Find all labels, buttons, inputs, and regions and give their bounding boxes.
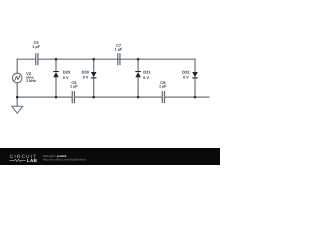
svg-text:D31: D31: [143, 70, 151, 75]
wire bottom rail segment 1: [17, 96, 71, 98]
wire D31 branch vertical: [137, 59, 139, 97]
diode D31 (pointing up): [135, 71, 141, 77]
svg-text:0 V: 0 V: [183, 76, 189, 80]
node top-D29: [55, 58, 58, 61]
svg-text:D29: D29: [63, 70, 71, 75]
diode D30 (pointing down): [91, 72, 97, 78]
diode D32 (pointing down): [192, 72, 198, 78]
capacitor C7 plates: [118, 53, 120, 65]
wire D29 branch vertical: [55, 59, 57, 97]
diode D29 (pointing up): [53, 71, 59, 77]
wire left vertical top (V2 to top rail): [16, 59, 18, 73]
svg-text:1 µF: 1 µF: [115, 48, 123, 52]
svg-text:LAB: LAB: [27, 158, 38, 163]
node top-D30: [92, 58, 95, 61]
node bottom-D30: [92, 96, 95, 99]
svg-text:0 V: 0 V: [143, 76, 149, 80]
wire D32 branch vertical (right edge): [194, 59, 196, 97]
capacitor C6 plates: [72, 91, 74, 103]
junction node dots: [16, 58, 196, 98]
svg-text:1 µF: 1 µF: [70, 85, 78, 89]
wire top rail middle-right segment: [39, 58, 195, 60]
voltage source V2 circle: [12, 73, 22, 83]
wire bottom rail segment 2: [75, 96, 162, 98]
wire top rail left segment: [17, 58, 35, 60]
capacitor C5 plates: [36, 53, 38, 65]
wire left vertical bottom (V2 to bottom rail): [16, 83, 18, 97]
capacitor C8 plates: [162, 91, 164, 103]
svg-text:D32: D32: [182, 70, 190, 75]
svg-text:1 µF: 1 µF: [159, 85, 167, 89]
node top-D31: [137, 58, 140, 61]
ground stub wire: [16, 97, 18, 106]
node bottom-D31: [137, 96, 140, 99]
node bottom-D29: [55, 96, 58, 99]
node bottom-D32: [194, 96, 197, 99]
footer logo resistor line: [10, 159, 26, 161]
footer banner: [0, 148, 220, 165]
svg-text:D30: D30: [82, 70, 90, 75]
svg-text:1 µF: 1 µF: [32, 45, 40, 49]
node bottom-ground: [16, 96, 19, 99]
ground symbol: [12, 106, 23, 113]
V2 sine squiggle with arrow: [15, 76, 20, 81]
wire bottom rail segment 3: [165, 96, 209, 98]
svg-text:1 kHz: 1 kHz: [26, 79, 36, 83]
svg-text:http://circuitlab.com/c/hq86ka: http://circuitlab.com/c/hq86kakw8: [43, 157, 86, 161]
svg-text:0 V: 0 V: [83, 76, 89, 80]
svg-text:0 V: 0 V: [63, 76, 69, 80]
wire D30 branch vertical: [93, 59, 95, 97]
